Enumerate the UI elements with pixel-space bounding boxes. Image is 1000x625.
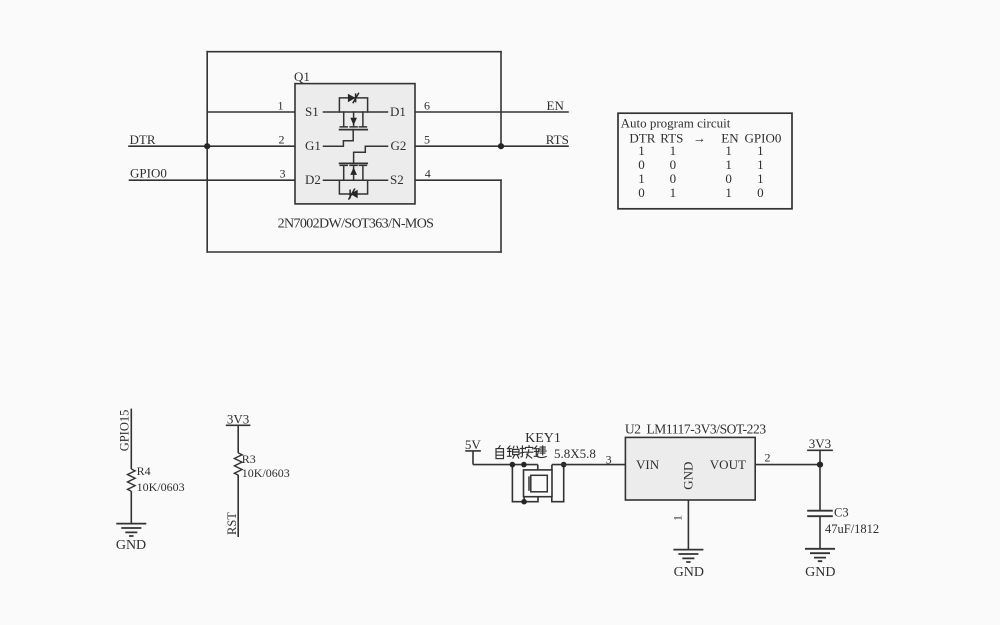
svg-text:S2: S2 xyxy=(390,172,404,187)
svg-text:0: 0 xyxy=(670,157,677,172)
resistor R4 zigzag xyxy=(128,469,136,491)
wire U2 GND pin down xyxy=(687,500,689,550)
svg-text:G1: G1 xyxy=(305,138,321,153)
svg-text:3: 3 xyxy=(280,167,286,181)
transistor Q1 body box xyxy=(295,84,415,204)
mosfet A body arrow xyxy=(350,118,357,126)
svg-text:Q1: Q1 xyxy=(294,69,310,84)
svg-text:2: 2 xyxy=(765,451,771,465)
svg-text:0: 0 xyxy=(638,157,645,172)
svg-text:U2 LM1117-3V3/SOT-223: U2 LM1117-3V3/SOT-223 xyxy=(625,421,766,436)
resistor R3 zigzag xyxy=(234,453,242,475)
junction dot RTS xyxy=(498,143,504,149)
truth table frame xyxy=(618,113,792,209)
svg-text:RTS: RTS xyxy=(546,132,569,147)
svg-text:GND: GND xyxy=(674,565,704,580)
node 5V underline xyxy=(465,450,481,452)
wire GPIO15 to R4 xyxy=(130,409,132,469)
switch KEY1 top drops xyxy=(524,465,552,502)
svg-text:47uF/1812: 47uF/1812 xyxy=(825,522,879,536)
wire top horizontal xyxy=(207,51,501,53)
node 3V3 underline xyxy=(226,424,251,426)
wire GPIO0 xyxy=(130,179,296,181)
svg-text:5V: 5V xyxy=(465,437,482,452)
switch KEY1 value text zi (自) xyxy=(496,446,504,459)
svg-text:GPIO15: GPIO15 xyxy=(118,410,132,452)
wire 5V drop xyxy=(472,451,474,465)
wire R4 to ground xyxy=(130,491,132,523)
svg-text:D2: D2 xyxy=(305,172,321,187)
svg-text:0: 0 xyxy=(638,185,645,200)
wire U2 VOUT to 3V3 xyxy=(755,464,820,466)
svg-text:RST: RST xyxy=(225,512,239,535)
wire EN xyxy=(415,111,568,113)
svg-text:1: 1 xyxy=(725,185,732,200)
mosfet B legs and caps xyxy=(340,165,366,180)
mosfet B diode symbol xyxy=(349,189,358,200)
wire KEY1 to U2 VIN xyxy=(552,464,626,466)
mosfet A gate plate xyxy=(340,129,368,131)
switch KEY1 pin dots xyxy=(510,462,516,468)
svg-text:S1: S1 xyxy=(305,104,319,119)
svg-text:6: 6 xyxy=(424,99,430,113)
svg-text:GND: GND xyxy=(681,462,696,490)
svg-text:1: 1 xyxy=(671,515,685,521)
ground symbol C3 xyxy=(805,549,835,561)
svg-text:VIN: VIN xyxy=(636,457,660,472)
wire R3 to RST xyxy=(237,475,239,537)
switch KEY1 button inner square xyxy=(531,475,548,492)
switch KEY1 left bracket xyxy=(512,465,538,502)
svg-text:R3: R3 xyxy=(242,452,256,466)
svg-text:0: 0 xyxy=(757,185,764,200)
mosfet B body-diode loop xyxy=(339,180,367,194)
wire 3V3 to R3 xyxy=(237,425,239,453)
wire pin4 stub S2 xyxy=(415,179,501,181)
svg-text:1: 1 xyxy=(725,157,732,172)
svg-text:3V3: 3V3 xyxy=(809,436,831,451)
svg-text:KEY1: KEY1 xyxy=(525,431,561,446)
junction dot DTR xyxy=(204,143,210,149)
switch KEY1 latch mark xyxy=(528,476,530,491)
junction dot 3V3 xyxy=(817,462,823,468)
svg-text:DTR: DTR xyxy=(130,132,156,147)
svg-text:4: 4 xyxy=(425,167,431,181)
switch KEY1 value text jian (键) xyxy=(534,446,546,458)
wire RTS xyxy=(415,145,568,147)
mosfet B drain-source line xyxy=(324,179,388,181)
mosfet A source-drain line xyxy=(324,111,388,113)
svg-text:1: 1 xyxy=(757,157,764,172)
wire right vertical lower xyxy=(500,180,502,252)
switch KEY1 button outer square xyxy=(524,470,553,497)
svg-text:10K/0603: 10K/0603 xyxy=(242,466,290,480)
switch KEY1 value text an (按) xyxy=(520,446,533,459)
svg-text:GPIO0: GPIO0 xyxy=(130,166,167,181)
wire left vertical (DTR net) xyxy=(206,52,208,252)
svg-text:5: 5 xyxy=(424,133,430,147)
wire DTR xyxy=(129,145,295,147)
ground symbol U2 xyxy=(673,550,703,562)
svg-text:Auto program circuit: Auto program circuit xyxy=(621,116,731,131)
svg-text:2N7002DW/SOT363/N-MOS: 2N7002DW/SOT363/N-MOS xyxy=(278,217,434,232)
switch KEY1 value text suo (锁) xyxy=(507,446,519,458)
wire right vertical upper xyxy=(500,52,502,147)
svg-text:D1: D1 xyxy=(390,104,406,119)
mosfet B gate path to G2 xyxy=(354,146,388,163)
svg-text:C3: C3 xyxy=(834,506,849,520)
wire C3 to ground xyxy=(819,516,821,549)
mosfet A legs and caps xyxy=(340,112,366,127)
svg-text:2: 2 xyxy=(279,133,285,147)
ground symbol R4 xyxy=(116,524,146,536)
svg-text:GND: GND xyxy=(805,565,835,580)
svg-text:1: 1 xyxy=(278,99,284,113)
wire pin1 stub S1 xyxy=(207,111,295,113)
svg-text:G2: G2 xyxy=(391,138,407,153)
mosfet B body arrow xyxy=(350,167,357,175)
mosfet A diode symbol xyxy=(348,93,359,103)
svg-text:1: 1 xyxy=(670,185,677,200)
mosfet B gate plate xyxy=(340,162,368,164)
svg-text:VOUT: VOUT xyxy=(710,457,746,472)
svg-text:EN: EN xyxy=(547,98,565,113)
svg-text:→: → xyxy=(693,130,706,145)
node 3V3 underline right xyxy=(807,449,833,451)
svg-text:5.8X5.8: 5.8X5.8 xyxy=(554,446,596,461)
mosfet A body-diode loop xyxy=(339,98,367,112)
svg-text:10K/0603: 10K/0603 xyxy=(137,480,185,494)
capacitor C3 plates xyxy=(807,511,833,517)
svg-text:GND: GND xyxy=(116,538,146,553)
switch KEY1 right bracket xyxy=(552,465,564,502)
svg-text:R4: R4 xyxy=(137,464,151,478)
svg-text:3: 3 xyxy=(606,452,612,466)
wire 5V to KEY1 xyxy=(473,464,538,466)
regulator U2 body box xyxy=(625,437,755,500)
mosfet A gate path to G1 xyxy=(324,130,354,147)
wire 3V3 down to C3 xyxy=(819,450,821,510)
wire bottom horizontal xyxy=(207,251,501,253)
svg-text:3V3: 3V3 xyxy=(227,411,249,426)
